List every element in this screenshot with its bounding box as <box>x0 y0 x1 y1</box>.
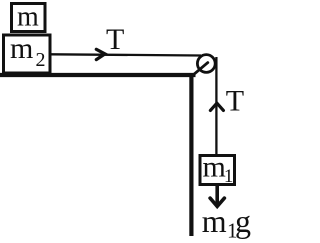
weight arrowhead down <box>210 198 224 206</box>
svg-text:1: 1 <box>224 166 234 187</box>
table vertical edge <box>189 73 193 236</box>
svg-text:m: m <box>17 2 39 33</box>
block m <box>12 4 46 32</box>
svg-text:g: g <box>235 203 251 239</box>
arrowhead on horizontal rope <box>96 49 105 59</box>
weight arrow shaft <box>215 186 219 204</box>
svg-text:m: m <box>202 203 227 239</box>
svg-text:m: m <box>203 151 226 184</box>
block m2 <box>4 35 51 73</box>
pulley <box>197 55 215 73</box>
svg-text:T: T <box>106 23 124 56</box>
table horizontal top edge <box>0 73 196 77</box>
pulley bracket <box>193 63 208 76</box>
wire vertical rope <box>215 57 217 155</box>
svg-text:m: m <box>10 32 33 65</box>
block m1 <box>200 156 235 185</box>
arrowhead up on vertical rope <box>210 103 223 110</box>
svg-text:T: T <box>226 84 244 117</box>
svg-text:2: 2 <box>36 49 46 71</box>
wire horizontal rope <box>51 54 201 55</box>
